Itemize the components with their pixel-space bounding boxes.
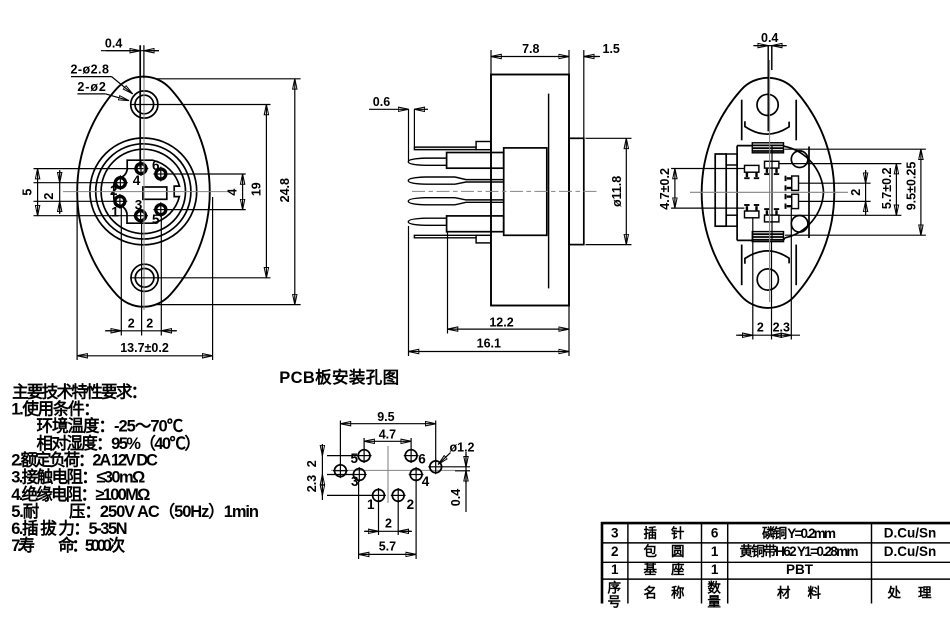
table column line 4	[871, 523, 873, 603]
dim 0.6 lines	[369, 108, 409, 110]
slim pin lower	[408, 198, 455, 205]
svg-text:5.7: 5.7	[379, 539, 396, 553]
slot line (rear)	[767, 46, 769, 132]
svg-text:3: 3	[135, 197, 143, 212]
svg-text:24.8: 24.8	[278, 178, 292, 202]
svg-text:2: 2	[305, 460, 319, 467]
PCB hole 2	[391, 488, 406, 503]
crimp band top	[752, 143, 783, 153]
svg-text:0.4: 0.4	[105, 37, 122, 51]
table column line 1	[627, 523, 629, 603]
front flange (side)	[569, 138, 584, 244]
svg-text:2-ø2.8: 2-ø2.8	[71, 63, 109, 77]
svg-text:2: 2	[757, 321, 764, 335]
svg-text:19: 19	[249, 182, 263, 196]
wide pin bottom body	[447, 216, 504, 232]
svg-text:2: 2	[407, 497, 415, 512]
pin 2 (front)	[113, 175, 128, 190]
extension lines pin columns bottom	[120, 207, 122, 336]
pin 1 (front)	[113, 194, 128, 209]
PCB hole left	[333, 463, 348, 478]
svg-text:2: 2	[146, 317, 153, 331]
table row line 1	[602, 542, 950, 544]
flat pin top (0.6)	[414, 147, 476, 150]
extension lines pins right	[167, 173, 246, 175]
housing bottom edge	[737, 238, 785, 241]
svg-text:5.耐 压：250V AC（50Hz）1min: 5.耐 压：250V AC（50Hz）1min	[11, 501, 261, 521]
extension lines body top	[490, 50, 492, 74]
svg-text:号: 号	[608, 595, 623, 610]
wide pin top lead	[408, 158, 446, 165]
horizontal centerline (front)	[63, 191, 228, 193]
extension lines right forks	[799, 182, 871, 184]
extension lines vertices right	[155, 78, 301, 80]
wide pin bottom lead	[408, 218, 446, 225]
svg-text:12.2: 12.2	[489, 315, 513, 329]
slot line right (front)	[143, 45, 145, 78]
extension line pin tips bottom	[408, 226, 410, 356]
svg-text:2.3: 2.3	[305, 475, 319, 492]
barrel circle arc	[785, 146, 824, 238]
svg-text:1.使用条件：: 1.使用条件：	[11, 399, 102, 419]
slim pin upper	[408, 177, 455, 184]
svg-text:1.5: 1.5	[603, 42, 620, 56]
table outer border top	[602, 522, 950, 525]
svg-text:4: 4	[226, 189, 240, 196]
dim 5.7±0.2 (rear right)	[895, 164, 897, 216]
table column line 2	[701, 523, 703, 603]
pin 5 (front)	[153, 202, 168, 217]
PCB crosshair vertical	[387, 446, 389, 503]
dim 12.2 (side bottom)	[448, 328, 570, 330]
svg-text:ø1.2: ø1.2	[450, 440, 475, 454]
PCB hole 5	[357, 448, 372, 463]
PCB hole right (ø1.2)	[428, 459, 443, 474]
dim 7.8 (side top)	[491, 56, 569, 58]
mounting hole top (front)	[131, 91, 158, 118]
svg-text:名 称: 名 称	[644, 585, 686, 601]
PCB hole 6	[404, 448, 419, 463]
extension line pin shoulder	[447, 233, 449, 334]
saddle bottom left wall	[741, 245, 743, 286]
table row line 2	[602, 561, 950, 563]
dim 2 (PCB left)	[321, 444, 323, 500]
svg-text:基 座: 基 座	[644, 561, 686, 577]
svg-text:7.8: 7.8	[522, 42, 539, 56]
horizontal centerline (rear)	[690, 191, 848, 193]
saddle top left wall	[741, 100, 743, 141]
terminal fork bottom-center	[764, 209, 779, 222]
dim 2 (rear right)	[865, 170, 867, 215]
body inner face line	[548, 94, 550, 289]
table row line 3	[602, 578, 950, 580]
mounting hole bottom (rear)	[757, 269, 778, 290]
dim 1.5 (side top)	[584, 56, 600, 58]
svg-text:4.绝缘电阻：≥100MΩ: 4.绝缘电阻：≥100MΩ	[11, 484, 153, 504]
svg-text:0.6: 0.6	[373, 95, 390, 109]
svg-text:插 针: 插 针	[644, 525, 686, 541]
svg-text:4.7±0.2: 4.7±0.2	[658, 168, 672, 210]
wire hole right-bottom	[791, 216, 808, 233]
svg-text:16.1: 16.1	[477, 337, 501, 351]
extension lines bottom columns	[752, 219, 754, 340]
dim 9.5 (PCB)	[340, 423, 435, 425]
svg-text:4: 4	[133, 173, 141, 188]
terminal fork right-upper	[786, 176, 799, 191]
flat pin bottom	[414, 235, 476, 238]
svg-text:ø11.8: ø11.8	[610, 176, 624, 207]
barrel ring outer	[90, 138, 197, 245]
svg-text:2.额定负荷：2A 12V DC: 2.额定负荷：2A 12V DC	[11, 450, 160, 470]
svg-text:1: 1	[611, 562, 619, 577]
slot line short (rear)	[771, 46, 773, 70]
svg-text:2: 2	[128, 317, 135, 331]
insert block	[504, 148, 547, 235]
svg-text:5.7±0.2: 5.7±0.2	[880, 167, 894, 209]
svg-text:材 料: 材 料	[777, 585, 822, 601]
svg-text:2: 2	[849, 189, 863, 196]
PCB crosshair horizontal	[331, 469, 455, 471]
dim 2 / 2.3 (rear bottom)	[736, 334, 800, 336]
vertical centerline (front)	[143, 78, 145, 310]
saddle top right wall	[795, 100, 797, 141]
terminal pin 4 fork (top-left)	[744, 165, 759, 178]
body outline	[491, 75, 569, 306]
PCB hole 1	[371, 488, 386, 503]
extension lines crimp band	[785, 148, 926, 150]
dim 5.7 (PCB)	[359, 553, 417, 555]
svg-text:序: 序	[608, 580, 623, 596]
dim 9.5±0.25 (rear right)	[920, 149, 922, 235]
svg-text:1: 1	[711, 544, 719, 559]
pin tip extension line top	[408, 109, 410, 160]
dim 16.1 (side bottom)	[409, 351, 570, 353]
svg-text:4: 4	[422, 474, 430, 489]
PCB hole 3	[352, 467, 367, 482]
slot line in barrel (rear)	[771, 146, 773, 241]
extension lines flange dia	[586, 137, 632, 139]
shield opening outline	[114, 160, 180, 223]
svg-text:13.7±0.2: 13.7±0.2	[120, 341, 169, 355]
dim 0.4 (PCB right)	[465, 452, 467, 512]
svg-text:2: 2	[385, 516, 392, 530]
PCB ext lines 9.5	[339, 421, 341, 466]
dim 4.7 (PCB)	[364, 440, 411, 442]
svg-text:数: 数	[707, 580, 722, 596]
pin 3 (front)	[133, 208, 148, 223]
svg-text:PCB板安装孔图: PCB板安装孔图	[279, 367, 402, 387]
dim 2 2 (front bottom)	[105, 330, 177, 332]
svg-text:磷铜 Y=0.2mm: 磷铜 Y=0.2mm	[762, 525, 837, 541]
svg-text:2: 2	[611, 544, 619, 559]
dim 4.7±0.2 (rear left)	[674, 169, 676, 209]
terminal fork right-lower	[786, 194, 799, 209]
dim 24.8 (front right)	[294, 79, 296, 305]
rear flange plate	[715, 154, 726, 226]
svg-text:9.5: 9.5	[377, 410, 394, 424]
svg-text:3.接触电阻：≤30mΩ: 3.接触电阻：≤30mΩ	[11, 467, 148, 487]
svg-text:1: 1	[367, 497, 375, 512]
dim 2.3 (PCB left)	[321, 485, 323, 495]
barrel ring middle	[96, 144, 191, 239]
svg-text:2: 2	[110, 183, 118, 198]
svg-text:1: 1	[111, 204, 119, 219]
dim 0.4 (front top) lines	[101, 50, 159, 52]
svg-text:包 圆: 包 圆	[644, 543, 686, 559]
dim 19 (front right)	[265, 105, 267, 278]
PCB hole 4	[409, 467, 424, 482]
extension line body right bottom	[568, 306, 570, 356]
wire hole right-top	[791, 151, 808, 168]
barrel ring inner	[101, 149, 185, 233]
svg-text:5: 5	[21, 189, 35, 196]
centerline (side)	[412, 190, 600, 192]
svg-text:PBT: PBT	[786, 562, 814, 577]
svg-text:处 理: 处 理	[887, 585, 933, 601]
svg-text:D.Cu/Sn: D.Cu/Sn	[884, 526, 937, 541]
svg-text:3: 3	[611, 526, 619, 541]
housing top edge	[737, 145, 784, 148]
mounting hole top (rear)	[757, 94, 778, 115]
svg-text:5: 5	[350, 451, 358, 466]
extension lines left terminals	[671, 168, 744, 170]
dim 13.7±0.2 (front bottom)	[77, 355, 213, 357]
rear flange step top	[726, 154, 737, 165]
housing right plate line	[808, 147, 810, 239]
svg-text:6: 6	[418, 451, 426, 466]
svg-text:量: 量	[707, 595, 722, 610]
svg-text:0.4: 0.4	[761, 31, 778, 45]
svg-text:2.3: 2.3	[773, 321, 790, 335]
rear flange outline	[702, 78, 835, 308]
table outer border left	[601, 522, 604, 604]
dim 2 (PCB bottom)	[364, 530, 412, 532]
dim 4 (front right)	[242, 174, 244, 210]
extension lines center terminals	[779, 163, 901, 165]
saddle top curve	[745, 121, 789, 134]
svg-text:环境温度：-25～70℃: 环境温度：-25～70℃	[37, 416, 186, 436]
key slot edge line	[139, 45, 141, 168]
PCB 0.4 ext lines	[443, 466, 470, 468]
pin 6 (front)	[153, 167, 168, 182]
svg-text:9.5±0.25: 9.5±0.25	[904, 162, 918, 211]
barrel chord line	[736, 146, 738, 241]
svg-text:5: 5	[152, 212, 160, 227]
svg-text:2-ø2: 2-ø2	[77, 80, 105, 94]
extension lines flange width	[76, 197, 78, 360]
svg-text:1: 1	[711, 562, 719, 577]
svg-text:4.7: 4.7	[379, 427, 396, 441]
svg-text:主要技术特性要求：: 主要技术特性要求：	[12, 382, 150, 402]
saddle bottom right wall	[795, 245, 797, 286]
PCB bottom ext lines	[378, 502, 380, 536]
PCB ext lines 4.7	[363, 438, 365, 450]
PCB 5.7 ext lines	[358, 481, 360, 560]
flat pin bottom step box	[476, 235, 491, 243]
crimp band bottom	[752, 232, 783, 242]
svg-text:黄铜带H62 Y1=0.28mm: 黄铜带H62 Y1=0.28mm	[740, 543, 860, 559]
svg-text:6.插 拔 力：5-35N: 6.插 拔 力：5-35N	[11, 518, 130, 538]
svg-text:相对湿度：95%（40℃）: 相对湿度：95%（40℃）	[37, 433, 204, 453]
flat pin top step box	[476, 142, 491, 150]
PCB left ext lines	[327, 455, 358, 457]
dim 5 (front left)	[37, 169, 39, 216]
dim 2 (front left)	[59, 170, 61, 214]
dim ø11.8 (side right)	[625, 138, 627, 244]
mounting hole bottom (front)	[131, 264, 158, 291]
svg-text:7.寿 命：5000次: 7.寿 命：5000次	[11, 535, 128, 555]
svg-text:3: 3	[351, 474, 359, 489]
saddle bottom curve	[745, 251, 789, 264]
pin 4 (front)	[134, 161, 149, 176]
key rectangle	[143, 187, 167, 199]
rear flange step bottom	[726, 215, 737, 226]
svg-text:2: 2	[42, 193, 56, 200]
extension lines pins left	[34, 168, 137, 170]
table column line 3	[727, 523, 729, 603]
svg-text:6: 6	[711, 526, 719, 541]
terminal pin 6 fork (top-center)	[764, 161, 779, 174]
wide pin top body	[447, 153, 504, 169]
terminal fork bottom-left	[744, 205, 759, 218]
svg-text:0.4: 0.4	[449, 489, 463, 506]
front flange outline	[77, 77, 210, 307]
extension lines holes right	[130, 104, 271, 106]
svg-text:6: 6	[152, 158, 160, 173]
svg-text:D.Cu/Sn: D.Cu/Sn	[884, 544, 937, 559]
vertical centerline (rear)	[769, 60, 771, 302]
